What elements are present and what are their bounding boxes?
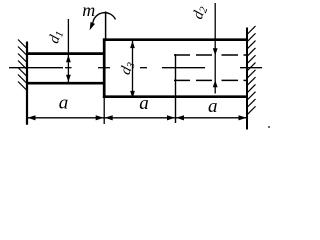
svg-text:d3: d3 <box>118 59 138 77</box>
svg-text:d2: d2 <box>190 3 210 21</box>
svg-text:a: a <box>139 93 149 114</box>
svg-text:a: a <box>208 96 218 117</box>
svg-text:a: a <box>59 92 69 113</box>
svg-text:m: m <box>82 0 95 20</box>
svg-text:d1: d1 <box>46 28 66 46</box>
